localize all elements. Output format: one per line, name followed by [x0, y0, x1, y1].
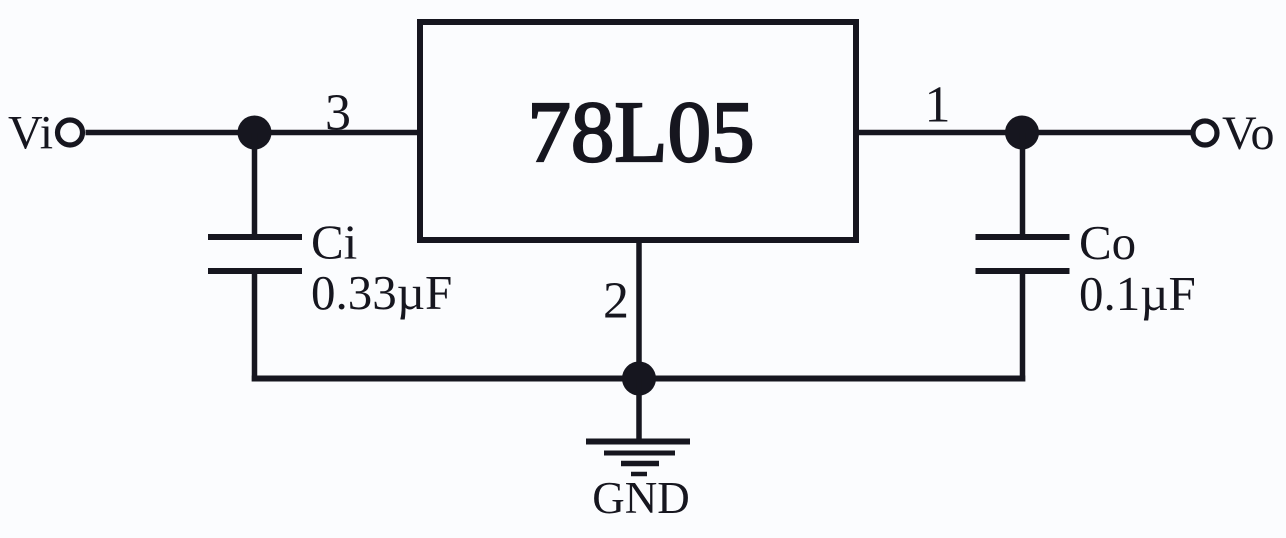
- svg-text:Co: Co: [1079, 215, 1136, 270]
- wire junction to Ci top plate: [252, 133, 258, 235]
- ground bar 2: [604, 451, 675, 456]
- ground bar 1: [586, 439, 690, 445]
- svg-text:Vo: Vo: [1222, 107, 1274, 160]
- svg-text:3: 3: [325, 85, 351, 142]
- terminal Vo (open circle): [1193, 121, 1217, 145]
- capacitor Ci bottom plate: [208, 268, 302, 274]
- wire Vi to regulator pin 3: [86, 130, 421, 136]
- svg-text:78L05: 78L05: [527, 83, 754, 180]
- capacitor Co top plate: [976, 234, 1070, 240]
- svg-text:1: 1: [925, 77, 951, 134]
- wire junction to Co top plate: [1020, 133, 1026, 235]
- wire Co bottom plate to ground rail: [1020, 271, 1026, 382]
- svg-text:0.1µF: 0.1µF: [1079, 266, 1196, 321]
- junction node at Vo/Co: [1005, 116, 1039, 150]
- wire ground rail (bottom bus): [252, 376, 1026, 382]
- svg-text:GND: GND: [592, 473, 690, 523]
- wire regulator pin 2 down to ground rail: [636, 240, 642, 379]
- regulator IC 78L05 box outline: [420, 22, 856, 240]
- svg-text:Vi: Vi: [8, 107, 53, 160]
- ground bar 3: [621, 461, 659, 467]
- junction node at Vi/Ci: [238, 116, 272, 150]
- capacitor Co bottom plate: [976, 268, 1070, 274]
- svg-text:0.33µF: 0.33µF: [311, 265, 452, 320]
- ground bar 4: [631, 472, 647, 477]
- wire Ci bottom plate to ground rail: [252, 271, 258, 382]
- terminal Vi (open circle): [58, 120, 83, 145]
- capacitor Ci top plate: [208, 234, 302, 240]
- junction node at ground rail: [622, 362, 656, 396]
- svg-text:2: 2: [603, 273, 629, 330]
- svg-text:Ci: Ci: [311, 215, 357, 270]
- wire regulator pin 1 to Vo: [856, 130, 1193, 136]
- wire ground junction to ground symbol: [636, 379, 642, 445]
